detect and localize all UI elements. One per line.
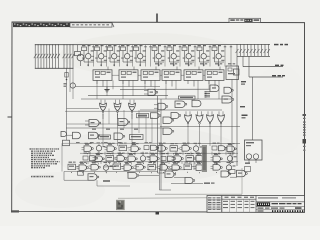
inline fuse on trunk bbox=[65, 73, 68, 81]
NOR gate G13 bbox=[207, 111, 214, 127]
logic cell X11 bbox=[212, 143, 227, 154]
coil check valve bbox=[64, 83, 76, 88]
net wire A bbox=[243, 66, 283, 68]
logic cell X20 bbox=[161, 153, 176, 164]
logic cell X1 bbox=[82, 143, 94, 154]
wire y128 long bbox=[66, 127, 163, 129]
driver cell K6 bbox=[152, 45, 165, 66]
logic cell X17 bbox=[126, 153, 138, 164]
logic cell X9 bbox=[180, 143, 192, 154]
NAND gate G7 bbox=[224, 87, 233, 93]
AND gate G9 bbox=[192, 100, 201, 107]
title text ELECTRO CONTROL bbox=[272, 203, 302, 204]
NAND gate G20 bbox=[163, 128, 174, 135]
label box DL3 bbox=[130, 135, 144, 140]
gate G36 bbox=[237, 170, 248, 177]
logic cell X3 bbox=[105, 143, 117, 154]
vertical trunk x237 bbox=[236, 56, 238, 166]
flip-flop U2 bbox=[119, 67, 138, 87]
notes paragraph bbox=[30, 148, 60, 168]
top horizontal bus wire bbox=[35, 44, 270, 46]
NAND gate G18 bbox=[151, 113, 161, 119]
flip-flop U6 bbox=[205, 67, 224, 87]
gate G33 bbox=[185, 178, 195, 184]
cell feeder wires bbox=[92, 45, 232, 67]
wire grid in block bbox=[64, 152, 238, 172]
revision table dark band bbox=[13, 23, 70, 27]
fold mark bottom center bbox=[156, 212, 160, 215]
logic cell X15 bbox=[106, 153, 116, 164]
vertical trunk x232 bbox=[231, 80, 233, 163]
input box B0 bbox=[63, 140, 70, 146]
AND gate G10 bbox=[222, 96, 234, 103]
sub-frame right bottom bbox=[155, 168, 242, 194]
flip-flop U3 bbox=[141, 67, 160, 87]
label box DL2 bbox=[99, 135, 111, 139]
logic cell X27 bbox=[77, 162, 89, 173]
right output connector ladder bbox=[236, 44, 270, 56]
drawing frame border bbox=[12, 22, 305, 212]
logic cell X5 bbox=[129, 143, 141, 154]
logic cell X2 bbox=[96, 142, 105, 153]
logic cell X24 bbox=[211, 153, 223, 164]
flip-flop U1 bbox=[93, 67, 112, 87]
driver cell K9 bbox=[197, 45, 210, 66]
NAND gate G19 bbox=[163, 117, 174, 124]
NAND gate G5 bbox=[154, 103, 168, 110]
logo box bbox=[257, 202, 270, 206]
driver cell K8 bbox=[182, 45, 195, 66]
zone labels right border bbox=[303, 114, 307, 151]
logic cell X39 bbox=[226, 162, 235, 173]
cell bottom labels bbox=[155, 63, 235, 64]
fuse box F2 bbox=[78, 171, 84, 175]
logic cell X38 bbox=[211, 162, 223, 173]
approval stamp bbox=[116, 200, 125, 210]
buffer gate G6 bbox=[205, 85, 220, 97]
AND gate G23 bbox=[114, 133, 125, 140]
AND gate G8 bbox=[175, 101, 187, 108]
bus wire y86 bbox=[75, 86, 160, 88]
logic cell X34 bbox=[158, 162, 170, 173]
logic cell X21 bbox=[172, 153, 184, 164]
AND gate G16 bbox=[85, 120, 101, 127]
wire y111 long bbox=[65, 110, 160, 112]
title block bbox=[207, 196, 305, 213]
NOR gate G14 bbox=[218, 111, 225, 127]
ground symbol bbox=[104, 87, 109, 93]
long return wire y99 bbox=[81, 98, 232, 100]
logic cell X12 bbox=[225, 143, 237, 154]
drawing number row bbox=[256, 207, 305, 209]
logic cell X28 bbox=[89, 161, 101, 172]
NOR gate G1 bbox=[100, 100, 107, 116]
label x242 y115 bbox=[242, 115, 248, 117]
corner smudge bottom-left bbox=[11, 210, 19, 212]
logic cell X16 bbox=[115, 153, 127, 164]
bus label right bbox=[274, 44, 279, 46]
revision table light box bbox=[70, 23, 112, 27]
logic cell X19 bbox=[148, 153, 160, 164]
wire y124 long bbox=[67, 123, 161, 125]
bottom strip line bbox=[118, 197, 207, 199]
wire y118 bbox=[102, 114, 104, 119]
logic cell X33 bbox=[148, 162, 158, 173]
tall box U7 bbox=[226, 66, 239, 80]
ladder continuation wires bbox=[67, 68, 74, 140]
wire down from ladder bbox=[252, 77, 254, 140]
flip-flop U4 bbox=[162, 67, 181, 87]
logic cell X29 bbox=[103, 162, 112, 173]
logic cell X13 bbox=[83, 153, 98, 164]
logic cell X36 bbox=[184, 161, 194, 172]
drawing number strip top-right bbox=[229, 18, 261, 22]
dark smudge column bbox=[202, 145, 207, 172]
bus wire y95.7 bbox=[88, 95, 168, 97]
logic cell X22 bbox=[186, 153, 196, 164]
net wire B bbox=[249, 76, 283, 78]
gate G34 bbox=[221, 171, 231, 177]
wire y143 long bbox=[160, 143, 240, 145]
small labels under gate rows bbox=[76, 129, 138, 144]
logic cell X8 bbox=[170, 143, 180, 154]
logic cell X25 bbox=[227, 153, 236, 164]
logic cell X31 bbox=[122, 162, 134, 173]
wire y176 bbox=[139, 174, 160, 176]
logic cell X4 bbox=[119, 143, 129, 154]
bus wire y89 bbox=[120, 88, 210, 90]
logic cell X10 bbox=[193, 143, 202, 154]
logic cell X30 bbox=[113, 161, 123, 172]
delay label box DL1 bbox=[179, 96, 196, 99]
AND gate G17 bbox=[118, 119, 130, 126]
label box DL4 bbox=[137, 113, 149, 117]
driver cell K5 bbox=[134, 45, 147, 66]
wire row y135 bbox=[67, 134, 73, 136]
flip-flop U5 bbox=[184, 67, 203, 87]
logic cell X26 bbox=[68, 162, 78, 173]
driver cell K1 bbox=[82, 45, 95, 66]
logic cell X6 bbox=[144, 142, 159, 153]
logic cell X37 bbox=[194, 162, 206, 173]
label LAMP bbox=[103, 180, 110, 181]
left input connector ladder bbox=[34, 44, 75, 69]
block frame line bbox=[161, 145, 163, 170]
fold mark left edge bbox=[8, 116, 12, 118]
logic cell X18 bbox=[140, 153, 149, 164]
logic cell X14 bbox=[93, 153, 105, 164]
bottom long wires bbox=[64, 161, 237, 186]
logic cell X23 bbox=[194, 153, 206, 164]
notes title line bbox=[31, 176, 54, 178]
logic cell X32 bbox=[134, 161, 146, 172]
AND gate G24 bbox=[61, 132, 67, 137]
vertical trunk x161 bbox=[160, 99, 162, 190]
label TD bbox=[204, 183, 210, 184]
crossing verticals bbox=[109, 109, 152, 144]
NOR gate G12 bbox=[196, 111, 203, 127]
label x240 y106 bbox=[240, 106, 245, 107]
NOR gate G11 bbox=[185, 111, 192, 127]
left block border bbox=[62, 143, 158, 171]
AND gate G21 bbox=[73, 132, 81, 139]
logic cell X7 bbox=[156, 143, 168, 154]
small stamp box bbox=[245, 167, 251, 172]
fold mark top center bbox=[156, 14, 158, 23]
driver cell K2 bbox=[95, 45, 108, 66]
wire y110 bbox=[140, 109, 222, 111]
NAND gate G4 bbox=[144, 89, 158, 95]
driver cell K3 bbox=[108, 45, 121, 66]
ff output wires bbox=[97, 80, 219, 99]
box link wires bbox=[112, 74, 205, 76]
driver cell K7 bbox=[167, 45, 180, 66]
terminal box TB1 bbox=[234, 69, 240, 75]
vertical trunk x157 bbox=[157, 96, 159, 173]
driver cell K4 bbox=[121, 45, 134, 66]
first coil M1 bbox=[77, 54, 84, 61]
gate G32 bbox=[165, 171, 176, 178]
NOR gate G2 bbox=[114, 100, 121, 116]
wire y108 long bbox=[67, 108, 100, 110]
scale bar bbox=[256, 210, 305, 212]
logic cell X35 bbox=[170, 162, 182, 173]
box B3 bbox=[229, 170, 236, 174]
inverter G15 bbox=[171, 113, 181, 119]
driver cell K10 bbox=[212, 45, 225, 66]
relay box K20 bbox=[245, 140, 263, 163]
label under box bbox=[245, 163, 250, 164]
wire y126 long bbox=[160, 126, 240, 128]
wire to lower nets bbox=[242, 56, 244, 66]
block feeder wires bbox=[103, 114, 221, 146]
OR gate G31 bbox=[88, 174, 99, 181]
NOR gate G3 bbox=[129, 100, 136, 116]
gate G35 bbox=[128, 173, 139, 179]
AND gate G22 bbox=[89, 132, 100, 139]
